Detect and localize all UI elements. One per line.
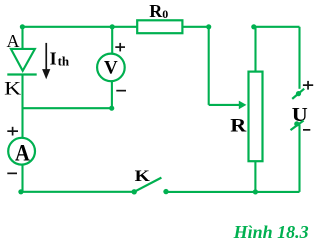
label + (voltmeter) — [115, 43, 125, 52]
node junction under R — [253, 189, 258, 194]
label + (source) — [303, 81, 313, 90]
wire R top lead — [254, 27, 256, 72]
ammeter A — [8, 138, 35, 165]
svg-text:A: A — [15, 140, 30, 165]
wire bottom right segment — [166, 191, 300, 193]
node junction under voltmeter — [109, 106, 114, 111]
wire middle horizontal connector — [22, 107, 112, 109]
wire − terminal down to bottom-right corner — [298, 125, 300, 192]
wire top-right horizontal — [254, 26, 300, 28]
wire from R0 node down to wiper level — [208, 27, 210, 105]
switch K (open) — [132, 189, 137, 194]
svg-text:A: A — [7, 31, 20, 51]
svg-text:Hình 18.3: Hình 18.3 — [233, 222, 309, 242]
svg-text:I: I — [50, 48, 57, 68]
wire ammeter bottom lead — [21, 165, 23, 192]
wire diode anode lead — [21, 27, 23, 49]
node bottom-left corner junction — [18, 189, 23, 194]
wire wiper arrow into R — [209, 104, 240, 106]
label − (source) — [303, 129, 310, 131]
svg-text:0: 0 — [162, 7, 168, 21]
wire voltmeter bottom lead — [111, 81, 113, 108]
svg-text:V: V — [104, 57, 118, 78]
label + (ammeter) — [7, 127, 18, 136]
terminal + of source U — [292, 89, 304, 99]
node junction top of R — [251, 24, 256, 29]
label − (ammeter) — [7, 173, 17, 175]
svg-text:K: K — [4, 79, 22, 99]
terminal − of source U — [291, 121, 304, 131]
resistor R (potentiometer body) — [249, 72, 263, 162]
diode cathode bar — [7, 73, 36, 75]
current arrow Ith — [42, 43, 50, 79]
svg-text:R: R — [149, 1, 163, 21]
wire voltmeter top lead — [111, 27, 113, 54]
wire cathode down to ammeter — [21, 75, 23, 138]
wire top-left horizontal (diode node to R0) — [23, 26, 138, 28]
label − (voltmeter) — [116, 90, 126, 92]
svg-text:th: th — [58, 53, 70, 68]
node junction above voltmeter — [110, 24, 115, 29]
wire R0 right lead — [182, 26, 208, 28]
wire right vertical down to + terminal — [298, 27, 300, 89]
wire bottom left segment to switch — [21, 191, 134, 193]
diode D (anode A top, cathode K bottom) — [11, 49, 35, 71]
svg-text:R: R — [230, 116, 246, 137]
resistor R0 — [137, 20, 182, 33]
node junction above diode — [20, 24, 25, 29]
wire R bottom lead — [254, 161, 256, 192]
voltmeter V — [97, 54, 125, 82]
node junction right of R0 — [206, 24, 211, 29]
svg-text:K: K — [135, 168, 151, 185]
